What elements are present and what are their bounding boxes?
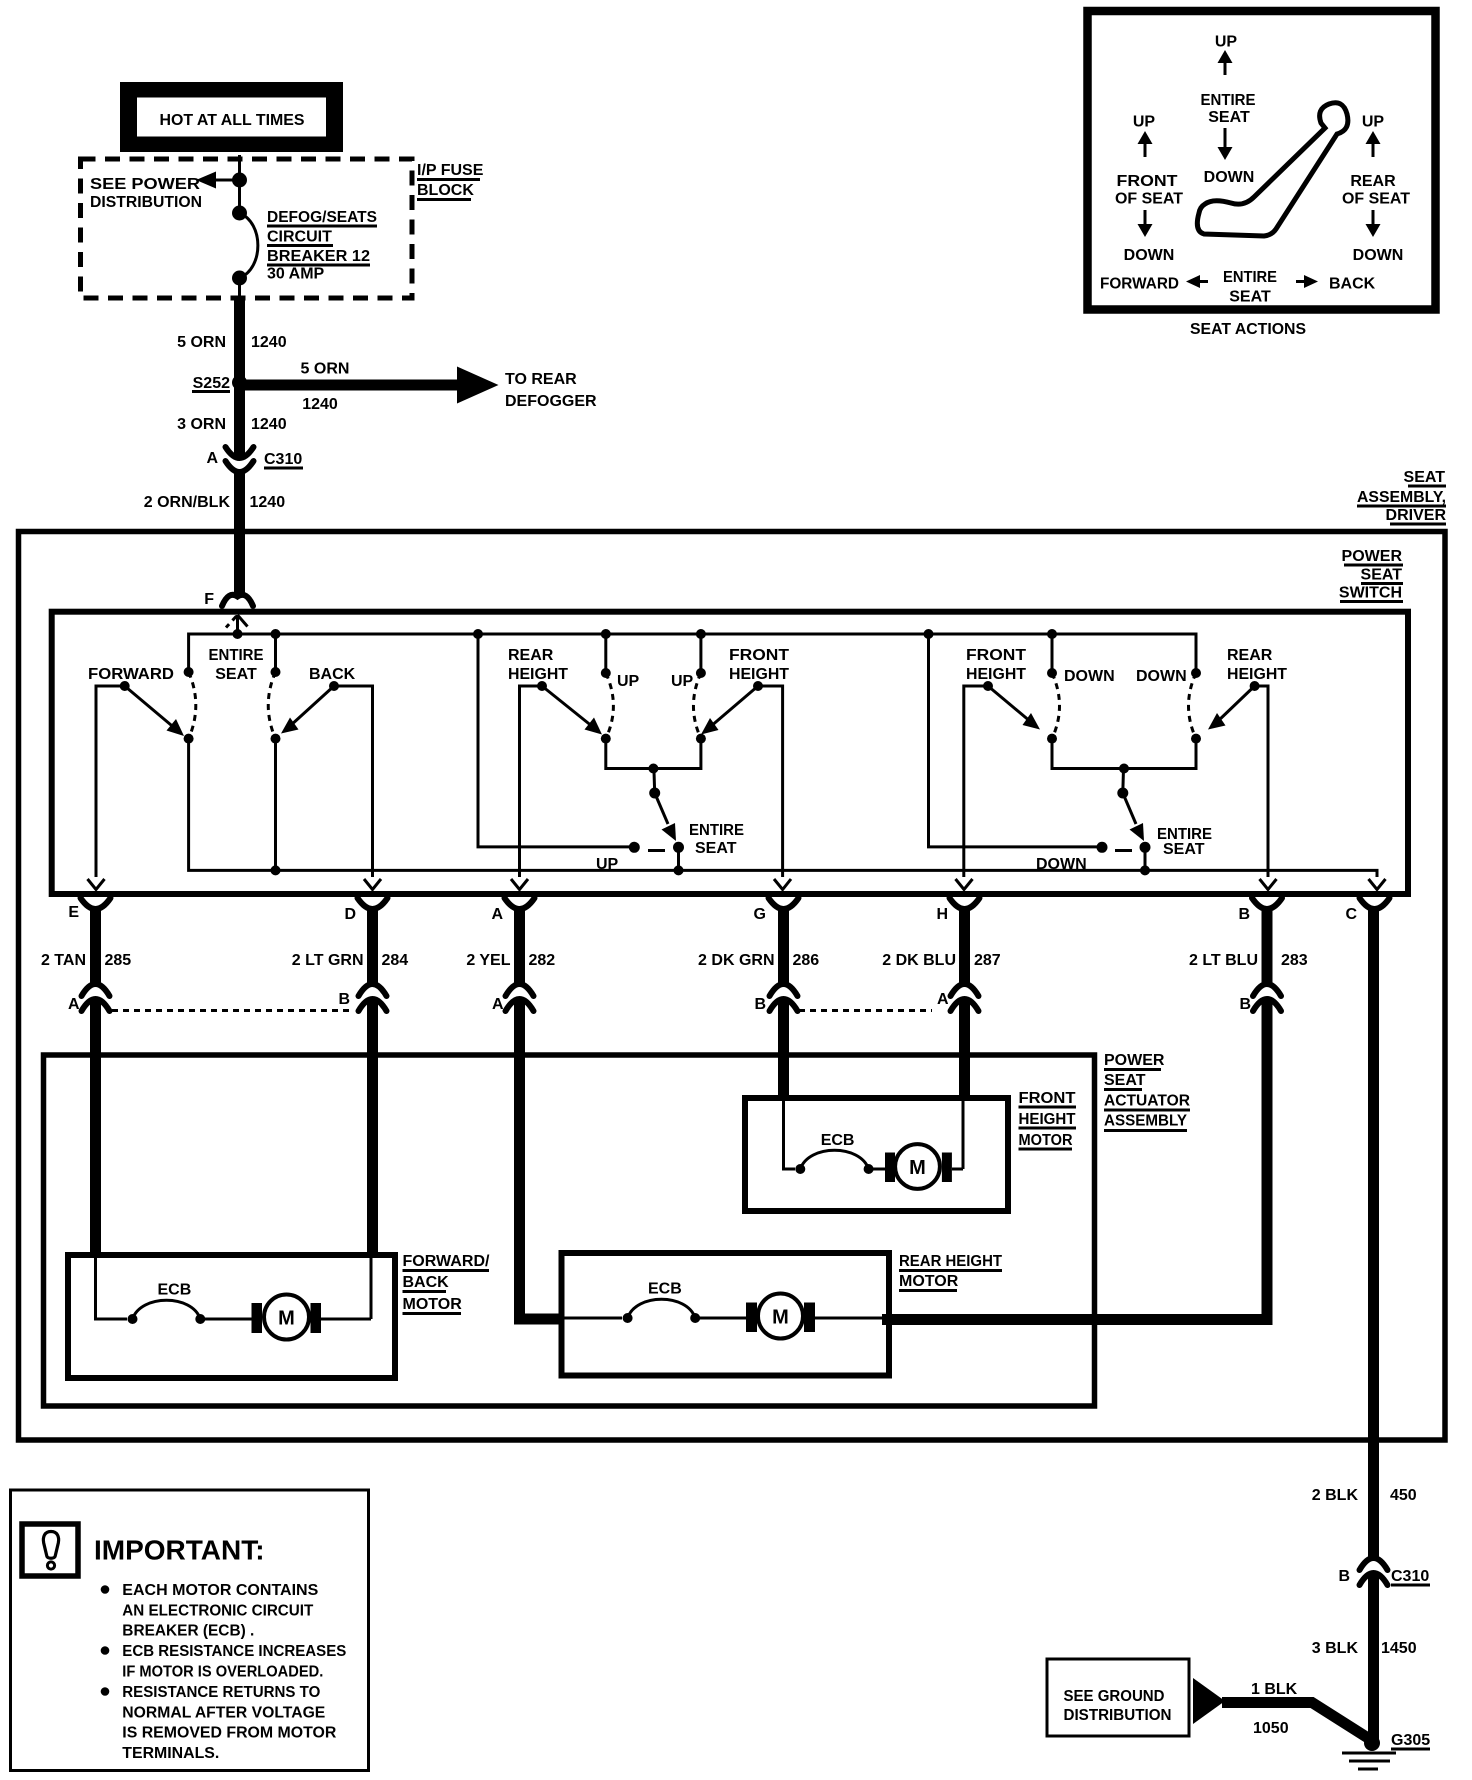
svg-text:FRONT: FRONT (1117, 173, 1178, 190)
motor M (rear height) (746, 1303, 757, 1333)
pin A connector (505, 898, 535, 909)
ENTIRE SEAT contacts (fwd/back pair) (184, 667, 194, 677)
svg-text:1 BLK: 1 BLK (1251, 1681, 1298, 1698)
svg-text:ENTIRE: ENTIRE (1201, 92, 1256, 109)
svg-text:B: B (1338, 1568, 1350, 1585)
svg-text:2 DK BLU: 2 DK BLU (882, 952, 956, 969)
svg-text:ASSEMBLY,: ASSEMBLY, (1357, 489, 1446, 506)
svg-text:285: 285 (105, 952, 132, 969)
wire 2 TAN 285 (90, 906, 101, 986)
pin G arrow at switch edge (774, 879, 791, 890)
wire 2 LT GRN 284 (367, 906, 378, 986)
svg-text:SEAT: SEAT (1104, 1072, 1146, 1089)
connector C310 pin A (inline, top) (226, 447, 254, 458)
node breaker top (232, 206, 247, 221)
svg-text:FRONT: FRONT (1019, 1090, 1076, 1107)
svg-text:D: D (344, 906, 356, 923)
svg-text:BREAKER 12: BREAKER 12 (267, 248, 370, 265)
svg-text:DOWN: DOWN (1136, 668, 1187, 685)
splice S252 (232, 375, 247, 390)
svg-text:3 BLK: 3 BLK (1312, 1640, 1359, 1657)
svg-text:5 ORN: 5 ORN (177, 334, 226, 351)
svg-text:2 TAN: 2 TAN (41, 952, 86, 969)
svg-text:C310: C310 (1391, 1568, 1429, 1585)
wire dk grn to front height motor (778, 1000, 789, 1095)
svg-text:287: 287 (974, 952, 1001, 969)
svg-text:REAR: REAR (1227, 647, 1273, 664)
wire 2 ORN/BLK 1240 (234, 472, 245, 594)
svg-text:SEAT ACTIONS: SEAT ACTIONS (1190, 321, 1306, 338)
svg-text:ECB: ECB (158, 1282, 192, 1299)
svg-text:ECB: ECB (821, 1132, 855, 1149)
wire lt grn to motor (367, 1000, 378, 1252)
svg-text:30 AMP: 30 AMP (267, 266, 325, 283)
svg-text:B: B (1238, 906, 1250, 923)
pin D arrow at switch edge (364, 879, 381, 890)
svg-text:A: A (206, 450, 218, 467)
dashed linkage down-right (1189, 673, 1197, 739)
svg-text:FORWARD: FORWARD (1100, 276, 1179, 293)
ECB (front height) (795, 1164, 805, 1174)
svg-text:SEAT: SEAT (1163, 841, 1205, 858)
svg-text:BACK: BACK (309, 666, 356, 683)
front height motor box (745, 1098, 1008, 1211)
wire 2 BLK 450 (ground side) (1368, 906, 1379, 1558)
svg-text:AN ELECTRONIC CIRCUIT: AN ELECTRONIC CIRCUIT (122, 1602, 313, 1619)
svg-text:ACTUATOR: ACTUATOR (1104, 1093, 1190, 1110)
forward/back motor box (68, 1255, 395, 1378)
svg-text:HEIGHT: HEIGHT (966, 666, 1026, 683)
seat assembly driver (outer box) (19, 532, 1446, 1441)
SEC1_POWER (1088, 11, 1436, 338)
wire lt blu to rear height motor (elbow) (882, 1000, 1267, 1320)
node F on bus (233, 629, 243, 639)
svg-text:A: A (492, 996, 504, 1013)
svg-text:FORWARD/: FORWARD/ (403, 1253, 491, 1270)
forward/back motor internal circuit (96, 1258, 128, 1319)
svg-text:HOT AT ALL TIMES: HOT AT ALL TIMES (160, 112, 305, 129)
pin H arrow at switch edge (956, 879, 973, 890)
bullet 2 (101, 1646, 110, 1655)
svg-text:M: M (772, 1307, 789, 1329)
svg-text:DOWN: DOWN (1036, 856, 1087, 873)
wire 3 BLK 1450 (1368, 1574, 1379, 1741)
svg-text:OF SEAT: OF SEAT (1115, 191, 1183, 208)
wire tan to motor (90, 1000, 101, 1252)
see ground distribution box (1047, 1659, 1189, 1736)
wire 2 DK GRN 286 (778, 906, 789, 986)
svg-text:B: B (1239, 996, 1251, 1013)
arrow to power distribution (212, 179, 240, 182)
inline connector pin B (lt grn wire) (359, 984, 387, 996)
svg-text:B: B (338, 991, 350, 1008)
svg-text:BACK: BACK (1329, 276, 1376, 293)
rear height motor box (562, 1253, 890, 1376)
I/P fuse block (dashed box) (81, 159, 413, 298)
connector F into power seat switch (222, 595, 253, 606)
seat actions legend box (1088, 11, 1436, 310)
wire from hot feed into breaker (238, 155, 241, 213)
svg-text:UP: UP (1133, 114, 1156, 131)
svg-text:1240: 1240 (251, 334, 287, 351)
inline connector pin A (tan wire) (82, 984, 110, 996)
UP contacts pair (604, 634, 607, 672)
svg-text:IMPORTANT:: IMPORTANT: (94, 1535, 265, 1566)
ground G305 (1364, 1735, 1380, 1751)
svg-text:FORWARD: FORWARD (88, 666, 174, 683)
svg-text:BREAKER (ECB) .: BREAKER (ECB) . (122, 1623, 254, 1640)
svg-text:UP: UP (1362, 114, 1385, 131)
wire 2 YEL 282 (514, 906, 525, 986)
dashed linkage fwd (189, 672, 196, 739)
svg-text:DOWN: DOWN (1124, 247, 1175, 264)
important note box (11, 1490, 369, 1771)
svg-text:1240: 1240 (250, 494, 286, 511)
svg-text:I/P FUSE: I/P FUSE (417, 162, 484, 179)
entire seat up contact (673, 842, 684, 853)
up pole lower contacts and yoke (601, 734, 611, 744)
svg-text:POWER: POWER (1342, 548, 1403, 565)
svg-text:C: C (1345, 906, 1357, 923)
node bus UP-L (601, 629, 611, 639)
svg-text:BLOCK: BLOCK (417, 182, 474, 199)
wire breaker to fuse-block edge (238, 278, 241, 299)
svg-text:M: M (278, 1308, 295, 1330)
SEC3_SWITCH (41, 879, 1390, 1558)
ECB (rear height) (623, 1313, 633, 1323)
svg-text:TO REAR: TO REAR (505, 371, 577, 388)
svg-text:H: H (936, 906, 948, 923)
wire 2 LT BLU 283 (1262, 906, 1273, 986)
svg-text:NORMAL AFTER VOLTAGE: NORMAL AFTER VOLTAGE (122, 1704, 325, 1721)
svg-text:UP: UP (596, 856, 619, 873)
pin A arrow at switch edge (511, 879, 528, 890)
svg-text:IS REMOVED FROM MOTOR: IS REMOVED FROM MOTOR (122, 1725, 336, 1742)
motor M (front height) (885, 1153, 895, 1183)
svg-text:1050: 1050 (1253, 1720, 1289, 1737)
svg-text:C310: C310 (264, 451, 302, 468)
svg-text:M: M (909, 1157, 926, 1179)
svg-text:5 ORN: 5 ORN (301, 361, 350, 378)
front height motor internal circuit (784, 1101, 796, 1169)
svg-text:SEAT: SEAT (695, 840, 737, 857)
SEC4_PINS (44, 1052, 1191, 1406)
feed bus wire inside switch (189, 634, 1196, 672)
svg-text:DOWN: DOWN (1353, 247, 1404, 264)
BACK lower contact (271, 734, 281, 744)
svg-text:F: F (204, 591, 214, 608)
svg-text:2 LT BLU: 2 LT BLU (1189, 952, 1258, 969)
svg-text:2 LT GRN: 2 LT GRN (292, 952, 364, 969)
SEC5_ACTUATOR (1047, 1487, 1430, 1769)
wire 2 DK BLU 287 (959, 906, 970, 986)
svg-text:282: 282 (529, 952, 556, 969)
pin E arrow at switch edge (88, 879, 105, 890)
wire yel to rear height motor (elbow) (520, 1000, 565, 1319)
svg-text:2 BLK: 2 BLK (1312, 1487, 1359, 1504)
power label box HOT AT ALL TIMES (120, 82, 343, 152)
svg-text:UP: UP (671, 673, 694, 690)
dashed connector link B-A (799, 1009, 932, 1012)
svg-text:DISTRIBUTION: DISTRIBUTION (90, 194, 202, 211)
node bus H1 (924, 629, 934, 639)
svg-text:3 ORN: 3 ORN (177, 416, 226, 433)
svg-text:1240: 1240 (302, 396, 338, 413)
entire-seat up wiper (652, 769, 656, 794)
svg-text:FRONT: FRONT (729, 647, 789, 664)
svg-text:DEFOGGER: DEFOGGER (505, 393, 597, 410)
svg-text:MOTOR: MOTOR (1019, 1132, 1073, 1149)
dashed linkage up-left (606, 673, 614, 739)
svg-text:2 ORN/BLK: 2 ORN/BLK (144, 494, 231, 511)
svg-text:1240: 1240 (251, 416, 287, 433)
svg-text:DOWN: DOWN (1064, 668, 1115, 685)
svg-text:286: 286 (793, 952, 820, 969)
entire-seat down wiper (1121, 769, 1125, 794)
down feed wire from pin H side (929, 634, 1099, 847)
entire seat down contact (1140, 842, 1151, 853)
wire 1 BLK 1050 (1222, 1703, 1368, 1739)
circuit breaker 12 (arc) (240, 213, 258, 278)
warning icon (22, 1524, 78, 1576)
svg-text:284: 284 (382, 952, 409, 969)
wire to rear defogger (arrow) (245, 380, 458, 391)
wire dk blu to front height motor (959, 1000, 970, 1095)
svg-text:FRONT: FRONT (966, 647, 1026, 664)
svg-text:283: 283 (1281, 952, 1308, 969)
svg-text:SEAT: SEAT (1361, 567, 1403, 584)
pin B connector (1252, 898, 1282, 909)
svg-text:REAR: REAR (508, 647, 554, 664)
svg-text:SEE POWER: SEE POWER (90, 176, 201, 193)
svg-text:G305: G305 (1391, 1732, 1430, 1749)
svg-text:DOWN: DOWN (1204, 169, 1255, 186)
svg-text:REAR HEIGHT: REAR HEIGHT (899, 1253, 1002, 1270)
down pole lower contacts and yoke (1047, 734, 1057, 744)
svg-text:S252: S252 (193, 375, 230, 392)
svg-text:OF SEAT: OF SEAT (1342, 191, 1410, 208)
DOWN contacts pair (1051, 634, 1054, 672)
arrow from ground distribution (1193, 1678, 1225, 1724)
svg-text:DEFOG/SEATS: DEFOG/SEATS (267, 209, 377, 226)
pin H connector (950, 898, 980, 909)
dashed linkage down-left (1052, 673, 1060, 739)
SEC2_SEATACTIONS (19, 469, 1447, 1440)
node breaker bottom (232, 271, 247, 286)
ECB (fwd/back) (128, 1314, 138, 1324)
dashed connector link A-B (112, 1009, 352, 1012)
svg-text:SEAT: SEAT (1229, 289, 1271, 306)
svg-text:IF MOTOR IS OVERLOADED.: IF MOTOR IS OVERLOADED. (122, 1663, 323, 1680)
svg-text:CIRCUIT: CIRCUIT (267, 229, 332, 246)
svg-text:RESISTANCE RETURNS TO: RESISTANCE RETURNS TO (122, 1684, 320, 1701)
svg-text:A: A (68, 996, 80, 1013)
svg-text:POWER: POWER (1104, 1052, 1165, 1069)
svg-text:2 DK GRN: 2 DK GRN (698, 952, 774, 969)
svg-text:2 YEL: 2 YEL (466, 952, 510, 969)
svg-text:SEE GROUND: SEE GROUND (1064, 1688, 1165, 1705)
inline connector pin A (dk blu wire) (951, 984, 979, 996)
legend: seat profile drawing (1197, 103, 1348, 236)
node at arrow junction (232, 173, 247, 188)
svg-text:HEIGHT: HEIGHT (508, 666, 568, 683)
up feed wire from pin A side (478, 634, 631, 847)
pin C connector (1360, 898, 1390, 909)
pin C arrow at switch edge (1369, 879, 1386, 890)
svg-text:E: E (68, 904, 79, 921)
svg-text:MOTOR: MOTOR (899, 1273, 959, 1290)
node bus UP-R (696, 629, 706, 639)
svg-text:A: A (491, 906, 503, 923)
svg-text:ECB: ECB (648, 1281, 682, 1298)
svg-text:450: 450 (1390, 1487, 1417, 1504)
svg-text:G: G (754, 906, 766, 923)
svg-text:SEAT: SEAT (1404, 469, 1446, 486)
svg-text:HEIGHT: HEIGHT (729, 666, 789, 683)
pin E connector (81, 898, 111, 909)
svg-text:SWITCH: SWITCH (1339, 585, 1402, 602)
svg-text:MOTOR: MOTOR (403, 1296, 463, 1313)
SEC6_GROUND (11, 1490, 369, 1771)
svg-text:DISTRIBUTION: DISTRIBUTION (1064, 1707, 1172, 1724)
inline connector pin B (lt blu wire) (1253, 984, 1281, 996)
node bus B1 (271, 629, 281, 639)
bullet 1 (101, 1585, 110, 1594)
common rail to ground pin C (189, 739, 1377, 877)
svg-text:A: A (937, 991, 949, 1008)
svg-text:ECB RESISTANCE INCREASES: ECB RESISTANCE INCREASES (122, 1643, 346, 1660)
svg-text:TERMINALS.: TERMINALS. (122, 1745, 219, 1762)
svg-text:SEAT: SEAT (1208, 109, 1250, 126)
svg-text:SEAT: SEAT (215, 666, 257, 683)
svg-text:1450: 1450 (1381, 1640, 1417, 1657)
svg-text:BACK: BACK (403, 1274, 450, 1291)
pin B arrow at switch edge (1260, 879, 1277, 890)
svg-text:DRIVER: DRIVER (1386, 507, 1447, 524)
FORWARD lower contact (184, 734, 194, 744)
power seat actuator assembly box (44, 1055, 1095, 1406)
svg-text:HEIGHT: HEIGHT (1227, 666, 1287, 683)
svg-text:HEIGHT: HEIGHT (1019, 1111, 1076, 1128)
node bus A1 (473, 629, 483, 639)
svg-text:ENTIRE: ENTIRE (209, 647, 264, 664)
dashed linkage up-right (693, 673, 700, 739)
connector C310 pin B (inline, bottom) (1360, 1558, 1388, 1570)
wire 5 ORN 1240 (thick feed) (234, 298, 245, 459)
bullet 3 (101, 1687, 110, 1696)
svg-text:ENTIRE: ENTIRE (689, 822, 744, 839)
svg-text:UP: UP (617, 673, 640, 690)
motor M (fwd/back) (252, 1303, 263, 1333)
svg-text:ASSEMBLY: ASSEMBLY (1104, 1113, 1187, 1130)
svg-text:UP: UP (1215, 34, 1238, 51)
switch wiper arrow from pin F (236, 615, 239, 634)
svg-text:REAR: REAR (1350, 173, 1396, 190)
power seat switch box (52, 612, 1408, 894)
inline connector pin A (yel wire) (506, 984, 534, 996)
dashed linkage back (268, 672, 275, 739)
pin D connector (358, 898, 388, 909)
node bus DN-L (1047, 629, 1057, 639)
pin G connector (769, 898, 799, 909)
svg-text:B: B (754, 996, 766, 1013)
svg-text:EACH MOTOR CONTAINS: EACH MOTOR CONTAINS (122, 1582, 318, 1599)
svg-text:ENTIRE: ENTIRE (1223, 269, 1277, 286)
inline connector pin B (dk grn wire) (770, 984, 798, 996)
rear height motor internal circuit (564, 1317, 622, 1320)
